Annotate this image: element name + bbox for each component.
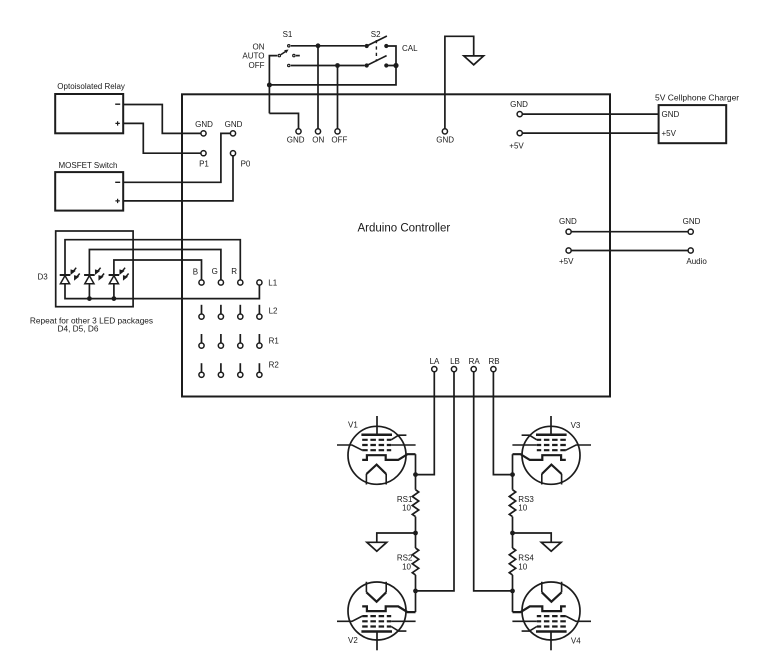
row R1 stub 3 (239, 334, 241, 343)
wire RA to V4 cathode junction (474, 372, 513, 591)
pin GND (aux left) (566, 229, 571, 234)
switch S2 lower arm (367, 56, 387, 66)
LED D3c (109, 268, 129, 284)
row R2 stub 1 (201, 363, 203, 372)
pin LB (451, 367, 456, 372)
junction V4 cathode / RA (510, 589, 515, 594)
svg-text:RS4: RS4 (518, 554, 534, 563)
pin P0 (230, 151, 235, 156)
row L2 stub 3 (239, 305, 241, 314)
svg-text:P0: P0 (241, 159, 251, 168)
wire LED3 anode feed to B pin (114, 260, 202, 280)
pin G (218, 280, 223, 285)
svg-text:LA: LA (430, 357, 440, 366)
svg-text:ON: ON (253, 42, 265, 51)
switch S2 lower throw dot (384, 63, 388, 67)
junction ON wire (316, 43, 321, 48)
wire RS3 to ground junction (512, 517, 514, 548)
svg-text:G: G (212, 267, 218, 276)
svg-text:L2: L2 (269, 306, 278, 315)
svg-text:D4, D5, D6: D4, D5, D6 (57, 324, 98, 334)
relay + terminal (115, 121, 119, 125)
svg-text:D3: D3 (37, 272, 48, 281)
switch S1 pole contact (278, 54, 280, 56)
pin GND (charger) (517, 112, 522, 117)
LED D3a (60, 268, 80, 284)
svg-text:AUTO: AUTO (242, 52, 264, 61)
row L2 stub 2 (220, 305, 222, 314)
junction LED3 cathode (112, 296, 117, 301)
ground symbol (top) (464, 56, 484, 65)
wire mosfet + to P0 pin (123, 156, 233, 201)
svg-text:S1: S1 (283, 30, 293, 39)
wire junction to GND pin (269, 113, 298, 128)
wire LB to V2 cathode junction (416, 372, 455, 591)
wire down to ON pin (317, 46, 319, 129)
wire down to OFF pin (337, 66, 339, 129)
row L2 stub 1 (201, 305, 203, 314)
row R2 stub 2 (220, 363, 222, 372)
relay - terminal (115, 103, 120, 105)
mosfet + terminal (115, 199, 119, 203)
svg-text:R1: R1 (269, 337, 280, 346)
row R1 stub 4 (258, 334, 260, 343)
ground symbol (left) (367, 542, 387, 551)
wire LA to V1 cathode junction (416, 372, 435, 475)
row R2 stub 4 (258, 363, 260, 372)
wire LED2 anode feed to G pin (89, 250, 221, 280)
mosfet - terminal (115, 181, 120, 183)
junction V1 cathode / LA (413, 472, 418, 477)
svg-text:+5V: +5V (509, 141, 524, 150)
pin R (238, 280, 243, 285)
svg-text:OFF: OFF (249, 61, 265, 70)
wire LED1 anode feed to R pin (65, 240, 240, 280)
svg-text:LB: LB (450, 357, 460, 366)
svg-text:V1: V1 (348, 421, 358, 430)
svg-text:L1: L1 (268, 278, 277, 287)
pin +5V (charger) (517, 131, 522, 136)
wire S1 ON contact to S2 upper pole (291, 45, 365, 47)
tube V1 (337, 416, 416, 485)
switch S1 arm with arrow (281, 52, 286, 55)
svg-text:RA: RA (469, 357, 481, 366)
pin R1 R (238, 343, 243, 348)
resistor RS2 (412, 548, 418, 575)
wire V3 cathode down (512, 454, 514, 490)
pin GND (mosfet) (230, 131, 235, 136)
svg-text:+5V: +5V (559, 257, 574, 266)
svg-text:10: 10 (402, 562, 411, 571)
row R2 stub 3 (239, 363, 241, 372)
row R1 stub 2 (220, 334, 222, 343)
resistor RS1 (412, 490, 418, 517)
switch S2 upper throw dot (384, 44, 388, 48)
svg-text:GND: GND (287, 136, 305, 145)
wire relay - to GND pin (123, 105, 201, 134)
svg-text:V3: V3 (571, 421, 581, 430)
svg-text:ON: ON (312, 136, 324, 145)
wire chassis ground feed (445, 36, 474, 129)
resistor RS4 (509, 548, 515, 575)
pin ON (315, 129, 320, 134)
switch S1 OFF throw contact (288, 64, 290, 66)
wire LED2 cathode drop (88, 284, 90, 299)
LED package D3 box (56, 231, 133, 307)
svg-text:RB: RB (488, 357, 499, 366)
svg-text:GND: GND (683, 217, 701, 226)
pin P1 (201, 151, 206, 156)
switch S1 ON throw contact (288, 45, 290, 47)
junction OFF wire (335, 63, 340, 68)
wire RS4 to V4 cathode (512, 575, 514, 612)
pin GND (ground feed) (442, 129, 447, 134)
svg-text:5V Cellphone Charger: 5V Cellphone Charger (655, 92, 739, 102)
pin LA (432, 367, 437, 372)
wire aux +5V to Audio (571, 250, 688, 252)
wire S1 OFF contact to S2 lower pole (291, 65, 365, 67)
junction V2 cathode / LB (413, 589, 418, 594)
wire RS2 to V2 cathode (415, 575, 417, 612)
pin R2 G (218, 372, 223, 377)
junction V3 cathode / RB (510, 472, 515, 477)
5V Cellphone Charger box (659, 105, 727, 143)
svg-text:10: 10 (518, 562, 527, 571)
svg-text:CAL: CAL (402, 44, 418, 53)
node GND (aux right) (688, 229, 693, 234)
junction LED2 cathode (87, 296, 92, 301)
svg-text:Arduino Controller: Arduino Controller (358, 223, 451, 235)
switch S1 AUTO throw contact with stub (293, 54, 295, 56)
pin R1 common (257, 343, 262, 348)
pin R1 G (218, 343, 223, 348)
svg-text:B: B (193, 267, 198, 276)
switch S2 upper pole dot (365, 44, 369, 48)
wire LED3 cathode drop (113, 284, 115, 299)
wire relay + to P1 pin (123, 123, 201, 153)
svg-text:GND: GND (195, 120, 213, 129)
wire charger +5V (522, 132, 658, 134)
wire RB to V3 cathode junction (493, 372, 512, 475)
svg-text:GND: GND (510, 100, 528, 109)
svg-text:OFF: OFF (331, 136, 347, 145)
pin GND (relay) (201, 131, 206, 136)
pin RB (491, 367, 496, 372)
svg-text:GND: GND (225, 120, 243, 129)
LED D3b (84, 268, 104, 284)
junction S2 output (393, 63, 398, 68)
ground symbol (right) (541, 542, 561, 551)
pin +5V (aux left) (566, 248, 571, 253)
switch S2 lower pole dot (365, 63, 369, 67)
pin OFF (335, 129, 340, 134)
pin RA (471, 367, 476, 372)
pin R2 common (257, 372, 262, 377)
svg-text:Audio: Audio (686, 257, 707, 266)
row R1 stub 1 (201, 334, 203, 343)
svg-text:S2: S2 (371, 30, 381, 39)
pin R2 R (238, 372, 243, 377)
switch S2 upper arm (367, 36, 387, 46)
wire RS1 to ground junction (415, 517, 417, 548)
svg-text:Optoisolated Relay: Optoisolated Relay (57, 82, 125, 91)
svg-text:V4: V4 (571, 636, 581, 645)
wire S2 output return to S1 pole junction (269, 66, 396, 85)
pin B (199, 280, 204, 285)
svg-text:GND: GND (436, 136, 454, 145)
wire aux GND (571, 231, 688, 233)
svg-text:MOSFET Switch: MOSFET Switch (59, 161, 118, 170)
wire charger GND (522, 113, 658, 115)
row L2 stub 4 (258, 305, 260, 314)
svg-text:R2: R2 (269, 361, 280, 370)
wire S1 pole to junction (269, 56, 277, 114)
tube V2 (337, 582, 416, 651)
switch S2 mechanical link (dashed) (375, 40, 377, 62)
node Audio (688, 248, 693, 253)
resistor RS3 (509, 490, 515, 517)
junction left ground tap (413, 531, 418, 536)
wire S2 throws tied together (386, 46, 396, 66)
svg-text:GND: GND (559, 217, 577, 226)
wire LED cathode bus to L1 pin (65, 284, 259, 299)
svg-text:GND: GND (662, 110, 680, 119)
pin L2 R (238, 314, 243, 319)
pin L1 (257, 280, 262, 285)
svg-text:+5V: +5V (662, 129, 677, 138)
svg-text:10: 10 (518, 503, 527, 512)
Optoisolated Relay box (55, 94, 123, 133)
svg-text:R: R (231, 267, 237, 276)
MOSFET Switch box (55, 172, 123, 211)
svg-text:P1: P1 (199, 159, 209, 168)
wire to left ground (377, 533, 416, 542)
Arduino controller box U1 (182, 94, 610, 396)
pin GND (S1 common) (296, 129, 301, 134)
pin R1 B (199, 343, 204, 348)
pin L2 B (199, 314, 204, 319)
pin R2 B (199, 372, 204, 377)
junction S1 pole / S2 return (267, 83, 272, 88)
wire mosfet - to GND pin (123, 133, 230, 182)
tube V3 (512, 416, 591, 485)
svg-text:RS2: RS2 (397, 554, 413, 563)
pin L2 G (218, 314, 223, 319)
svg-text:10: 10 (402, 503, 411, 512)
tube V4 (512, 582, 591, 651)
wire V1 cathode down (415, 454, 417, 490)
wire to right ground (513, 533, 552, 542)
svg-text:V2: V2 (348, 636, 358, 645)
junction right ground tap (510, 531, 515, 536)
pin L2 common (257, 314, 262, 319)
